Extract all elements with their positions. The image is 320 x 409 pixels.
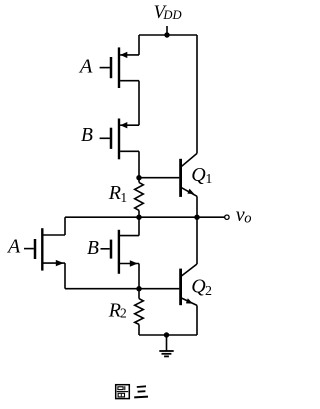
wire vo line left corner down to lower A bbox=[64, 217, 66, 235]
junction R1 bottom on vo line bbox=[136, 215, 141, 220]
svg-text:A: A bbox=[6, 236, 21, 258]
svg-text:2: 2 bbox=[120, 306, 127, 321]
wire lower A drain down to bottom rail bbox=[64, 263, 66, 289]
transistor Q1 bbox=[181, 153, 197, 197]
caption figure three (drawn glyphs) bbox=[116, 385, 148, 399]
wire ground line bbox=[139, 334, 197, 336]
ground bbox=[159, 335, 173, 356]
wire upper A drain to upper B source bbox=[138, 81, 140, 126]
wire Q1 emitter to output line bbox=[196, 196, 198, 217]
wire upper B drain down to R1 node bbox=[138, 151, 140, 177]
svg-text:1: 1 bbox=[120, 190, 127, 205]
svg-text:A: A bbox=[78, 56, 93, 78]
transistor B (upper) bbox=[100, 119, 139, 160]
transistor A (upper) bbox=[100, 47, 139, 88]
wire lower B drain down to bottom rail bbox=[138, 264, 140, 289]
wire bottom rail / Q2 base bbox=[65, 288, 179, 290]
svg-text:R: R bbox=[108, 182, 121, 204]
label R1 bbox=[108, 182, 127, 205]
wire top rail bbox=[139, 34, 197, 36]
svg-text:1: 1 bbox=[205, 172, 212, 187]
svg-text:Q: Q bbox=[191, 164, 206, 186]
transistor B (lower) bbox=[101, 230, 140, 274]
label Q1 bbox=[191, 164, 212, 187]
resistor R1 bbox=[135, 178, 144, 218]
wire upper A source to rail bbox=[138, 35, 140, 55]
terminal vo circle bbox=[225, 215, 229, 219]
svg-text:o: o bbox=[244, 211, 251, 227]
wire lower B source up to vo node bbox=[138, 217, 140, 235]
resistor R2 bbox=[135, 289, 144, 335]
junction VDD on top rail bbox=[164, 32, 169, 37]
svg-text:Q: Q bbox=[191, 276, 206, 298]
wire output vo line bbox=[65, 216, 225, 218]
svg-text:DD: DD bbox=[162, 8, 181, 22]
wire Q1 base bbox=[139, 177, 179, 179]
label R2 bbox=[108, 299, 127, 321]
power VDD label bbox=[154, 3, 182, 23]
svg-text:B: B bbox=[87, 238, 99, 259]
transistor A (lower) bbox=[24, 228, 65, 270]
label vo bbox=[236, 204, 252, 227]
wire Q2 collector up to vo node bbox=[196, 217, 198, 264]
wire VDD stub bbox=[166, 26, 168, 35]
wire right rail to Q1 collector bbox=[196, 35, 198, 153]
svg-text:2: 2 bbox=[205, 284, 212, 299]
wire Q2 emitter down to ground line bbox=[196, 305, 198, 335]
junction ground on ground line bbox=[164, 332, 169, 337]
transistor Q2 bbox=[181, 264, 197, 305]
junction R2 top on bottom rail bbox=[136, 286, 141, 291]
junction Q1 emitter on vo line bbox=[194, 215, 199, 220]
svg-text:B: B bbox=[81, 125, 93, 146]
junction node R1 top bbox=[136, 175, 141, 180]
label Q2 bbox=[191, 276, 212, 299]
